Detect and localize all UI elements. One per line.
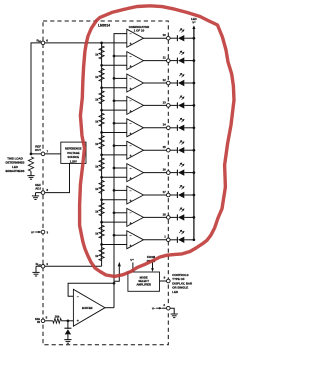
annotation red hand-drawn loop: [80, 6, 234, 277]
LED 2 emission arrows: [179, 51, 184, 55]
svg-text:−: −: [130, 234, 132, 238]
pin 1: [167, 238, 171, 242]
svg-text:10: 10: [163, 33, 167, 37]
pin 15: [167, 148, 171, 152]
node ladder tap 10: [100, 243, 103, 246]
svg-text:SOURCE: SOURCE: [68, 155, 80, 159]
svg-text:1.25V: 1.25V: [70, 159, 77, 163]
node ladder tap 3: [100, 86, 103, 89]
svg-text:1k: 1k: [95, 187, 98, 191]
wire signal bus from buffer to comparator - inputs: [114, 34, 127, 308]
wire bus stub to comparator 8 - input: [114, 189, 127, 191]
svg-text:15: 15: [163, 145, 167, 149]
ground V-: [171, 314, 178, 318]
svg-text:20k: 20k: [55, 314, 60, 318]
LED 4 emission arrows: [179, 96, 184, 100]
op-amp comparator C8: [127, 186, 144, 204]
svg-text:MODE: MODE: [140, 275, 148, 279]
node ladder tap 7: [100, 176, 103, 179]
svg-text:REFERENCE: REFERENCE: [65, 147, 82, 151]
node LED bus junction 1: [193, 37, 196, 40]
pin 11: [167, 59, 171, 63]
resistor ladder divider: [101, 43, 103, 266]
mode select amplifier box U4: [128, 272, 160, 291]
resistor 1k #9: [99, 225, 104, 238]
svg-text:+: +: [130, 109, 132, 113]
svg-text:IN: IN: [37, 320, 40, 324]
op-amp comparator C6: [127, 141, 144, 159]
resistor 1k #3: [99, 91, 104, 104]
node LED bus junction 9: [193, 216, 196, 219]
wire LED V+ supply bus: [193, 28, 195, 239]
svg-text:+: +: [130, 199, 132, 203]
op-amp comparator C3: [127, 74, 144, 92]
node ladder tap 1: [100, 42, 103, 45]
wire FROM PIN 11 into mode box: [152, 262, 154, 268]
svg-text:−: −: [130, 166, 132, 170]
node ladder tap 5: [100, 131, 103, 134]
svg-text:16: 16: [163, 168, 167, 172]
node ladder tap 9: [100, 221, 103, 224]
svg-text:17: 17: [163, 190, 167, 194]
LED 5: [170, 127, 177, 129]
LED 4: [170, 104, 177, 106]
LED 8: [170, 194, 177, 196]
wire comparator 9 output to pin 18: [144, 216, 167, 218]
op-amp comparator C2: [127, 52, 144, 70]
wire bus stub to comparator 9 - input: [114, 212, 127, 214]
LED 1 emission arrows: [179, 29, 184, 33]
LED 9 emission arrows: [179, 208, 184, 212]
dashed IC boundary LM3914: [43, 21, 168, 345]
wire pin5 to 20k resistor: [45, 320, 53, 322]
diode input clamp D1: [67, 321, 69, 329]
wire tap 9 to comparator 9 + input: [102, 221, 127, 223]
node LED bus junction 8: [193, 194, 196, 197]
svg-text:V−: V−: [152, 306, 156, 310]
op-amp comparator C9: [127, 208, 144, 226]
svg-text:+: +: [130, 87, 132, 91]
resistor 1k #8: [99, 203, 104, 216]
op-amp comparator C4: [127, 96, 144, 114]
wire pin 2 to ground: [170, 308, 174, 314]
node LED bus junction 3: [193, 82, 196, 85]
svg-text:1 OF 10: 1 OF 10: [134, 28, 145, 32]
op-amp comparator C1: [127, 29, 144, 47]
resistor 1k #6: [99, 158, 104, 171]
pin 18: [167, 216, 171, 220]
svg-text:−: −: [130, 122, 132, 126]
svg-text:V⁺: V⁺: [130, 258, 134, 262]
svg-text:1k: 1k: [95, 53, 98, 57]
wire buffer feedback loop: [68, 283, 114, 296]
wire tap 7 to comparator 7 + input: [102, 176, 127, 178]
svg-text:−: −: [130, 144, 132, 148]
pin 4 RLO: [41, 265, 45, 269]
pin 5 SIG IN: [41, 319, 45, 323]
svg-text:1k: 1k: [95, 120, 98, 124]
svg-text:BUFFER: BUFFER: [82, 306, 93, 310]
LED 2: [170, 60, 177, 62]
svg-text:1k: 1k: [95, 97, 98, 101]
wire mode box output to pin 9: [160, 280, 167, 282]
wire tap 4 to comparator 4 + input: [102, 109, 127, 111]
resistor 20k: [53, 318, 62, 323]
node LED bus junction 2: [193, 59, 196, 62]
wire bus stub to comparator 7 - input: [114, 167, 127, 169]
LED 10: [170, 239, 177, 241]
ground load resistor: [27, 176, 34, 180]
op-amp buffer U3: [73, 289, 105, 326]
op-amp comparator C5: [127, 119, 144, 137]
wire resistor to buffer + input: [61, 320, 73, 322]
svg-text:AMPLIFIER: AMPLIFIER: [136, 282, 151, 286]
LED 6 emission arrows: [179, 141, 184, 145]
wire comparator 8 output to pin 17: [144, 194, 167, 196]
node LED bus junction 10: [193, 238, 196, 241]
svg-text:1k: 1k: [95, 142, 98, 146]
pin 6 RHI: [41, 41, 45, 45]
wire comparator 5 output to pin 14: [144, 127, 167, 129]
svg-text:VOLTAGE: VOLTAGE: [67, 151, 80, 155]
wire bus stub to comparator 5 - input: [114, 122, 127, 124]
wire bus stub to comparator 3 - input: [114, 77, 127, 79]
node ladder tap 8: [100, 198, 103, 201]
LED 3 emission arrows: [179, 73, 184, 77]
pin 10: [167, 36, 171, 40]
ground REF ADJ: [32, 196, 39, 200]
svg-text:−: −: [77, 295, 79, 299]
svg-text:BRIGHTNESS: BRIGHTNESS: [6, 169, 25, 173]
svg-text:+: +: [130, 154, 132, 158]
svg-text:LED: LED: [172, 290, 178, 294]
svg-text:−: −: [130, 32, 132, 36]
svg-text:SELECT: SELECT: [138, 279, 149, 283]
svg-text:+: +: [130, 65, 132, 69]
pin 2 V-: [156, 307, 161, 309]
LED 6: [170, 149, 177, 151]
svg-text:V⁺: V⁺: [192, 21, 196, 25]
svg-text:14: 14: [163, 123, 167, 127]
node ladder tap 2: [100, 64, 103, 67]
wire reference box to pin 8 REF ADJ: [36, 163, 70, 192]
svg-text:1k: 1k: [95, 75, 98, 79]
node LED bus junction 7: [193, 171, 196, 174]
node feedback junction: [113, 282, 116, 285]
wire bus stub to comparator 4 - input: [114, 100, 127, 102]
LED 1: [170, 37, 177, 39]
resistor 1k #7: [99, 180, 104, 193]
LED 5 emission arrows: [179, 118, 184, 122]
pin 12: [167, 81, 171, 85]
svg-text:1k: 1k: [95, 209, 98, 213]
svg-text:LM3914: LM3914: [98, 23, 110, 27]
wire RLO to ladder bottom: [36, 265, 102, 267]
node LED bus junction 6: [193, 149, 196, 152]
pin 14: [167, 126, 171, 130]
wire buffer output: [105, 307, 114, 309]
node ladder tap 4: [100, 109, 103, 112]
svg-text:1k: 1k: [95, 165, 98, 169]
wire tap 3 to comparator 3 + input: [102, 87, 127, 89]
wire bus stub to comparator 10 - input: [114, 234, 127, 236]
svg-text:−: −: [130, 99, 132, 103]
wire buffer output up arrow: [114, 266, 119, 281]
svg-text:12: 12: [163, 78, 167, 82]
svg-text:+: +: [130, 132, 132, 136]
pin 7 REF OUT: [41, 152, 45, 156]
svg-text:+: +: [77, 319, 79, 323]
wire tap 8 to comparator 8 + input: [102, 199, 127, 201]
LED 8 emission arrows: [179, 185, 184, 189]
svg-text:18: 18: [163, 212, 167, 216]
svg-text:11: 11: [163, 56, 166, 60]
pin 9 MODE: [167, 279, 171, 283]
resistor 1k #1: [99, 46, 104, 59]
wire comparator 10 output to pin 1: [144, 239, 167, 241]
svg-text:OUT: OUT: [35, 148, 41, 152]
wire comparator 7 output to pin 16: [144, 172, 167, 174]
svg-text:−: −: [130, 189, 132, 193]
node LED bus junction 4: [193, 104, 196, 107]
wire tap 5 to comparator 5 + input: [102, 132, 127, 134]
svg-text:1k: 1k: [95, 232, 98, 236]
ground input clamp: [64, 340, 71, 344]
svg-text:13: 13: [163, 100, 167, 104]
node LED bus junction 5: [193, 126, 196, 129]
node input clamp junction: [67, 319, 70, 322]
wire tap 10 to comparator 10 + input: [102, 244, 127, 246]
resistor 1k #2: [99, 68, 104, 81]
op-amp comparator C10: [127, 231, 144, 249]
LED 7 emission arrows: [179, 163, 184, 167]
LED 10 emission arrows: [179, 230, 184, 234]
wire comparator 3 output to pin 12: [144, 82, 167, 84]
pin 3 V+ supply: [35, 231, 40, 233]
wire REF OUT node to reference box: [31, 153, 61, 155]
wire comparator 6 output to pin 15: [144, 149, 167, 151]
node ladder tap 6: [100, 154, 103, 157]
svg-text:+: +: [130, 177, 132, 181]
svg-text:−: −: [130, 77, 132, 81]
wire pin6 RHI external to REF OUT node: [31, 43, 127, 154]
LED 3: [170, 82, 177, 84]
svg-text:−: −: [130, 211, 132, 215]
wire bus stub to comparator 6 - input: [114, 145, 127, 147]
svg-text:1k: 1k: [95, 254, 98, 258]
wire mode box V+ supply: [132, 263, 134, 273]
LED 9: [170, 216, 177, 218]
wire comparator 2 output to pin 11: [144, 60, 167, 62]
svg-text:V⁺: V⁺: [31, 230, 35, 234]
svg-text:+: +: [130, 221, 132, 225]
resistor 1k #4: [99, 113, 104, 126]
svg-text:+: +: [130, 42, 132, 46]
LED 7: [170, 172, 177, 174]
wire comparator 1 output to pin 10: [144, 37, 167, 39]
resistor 1k #10: [99, 248, 104, 261]
svg-text:ADJ: ADJ: [35, 187, 41, 191]
wire bus stub to comparator 2 - input: [114, 55, 127, 57]
svg-text:−: −: [130, 54, 132, 58]
wire tap 6 to comparator 6 + input: [102, 154, 127, 156]
pin 16: [167, 171, 171, 175]
node REF OUT / load junction: [30, 153, 33, 156]
op-amp comparator C7: [127, 164, 144, 182]
wire comparator 4 output to pin 13: [144, 104, 167, 106]
resistor 1k #5: [99, 136, 104, 149]
ground RLO: [32, 272, 39, 276]
pin 13: [167, 104, 171, 108]
pin 17: [167, 193, 171, 197]
reference voltage source box U2: [61, 142, 86, 163]
svg-text:+: +: [130, 244, 132, 248]
pin 8 REF ADJ: [41, 191, 45, 195]
resistor LED brightness load: [28, 157, 33, 171]
wire tap 2 to comparator 2 + input: [102, 64, 127, 66]
